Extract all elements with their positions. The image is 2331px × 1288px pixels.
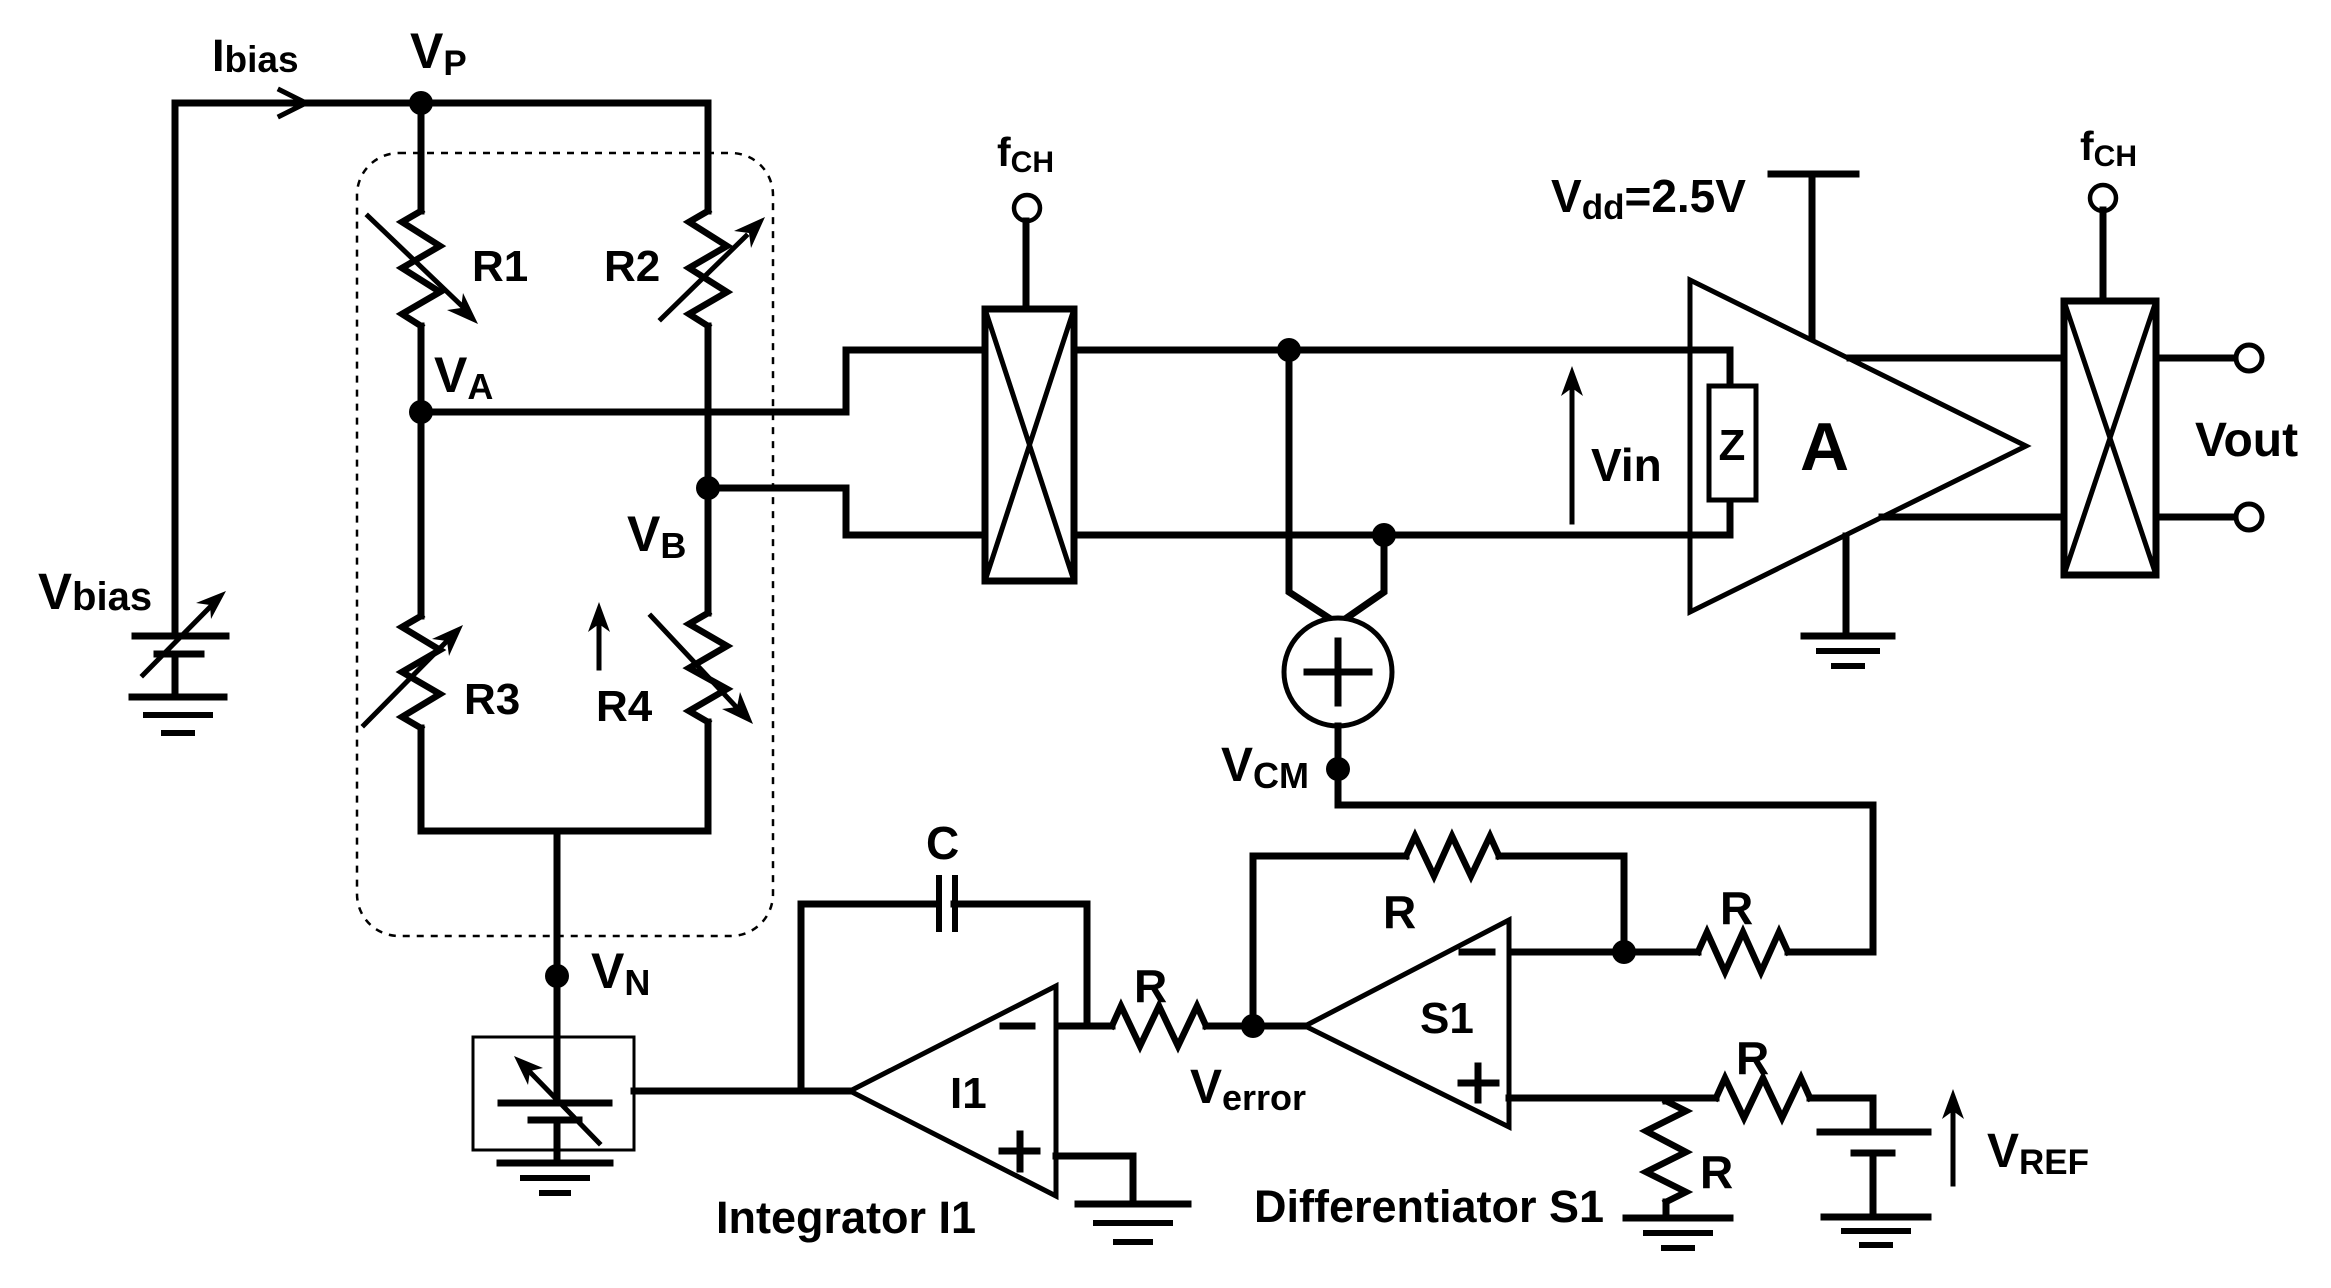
chopper CH1 (input modulator) — [985, 309, 1074, 581]
label VCM — [1221, 739, 1309, 796]
wire feedback up from junction — [1499, 856, 1624, 952]
wire VB to input chopper (lower) — [708, 488, 985, 535]
arrow VREF — [1942, 1089, 1964, 1184]
summing node (+) common-mode sense — [1284, 618, 1392, 726]
label R (S1 feedback) — [1383, 886, 1416, 938]
wire lower amp input through Z — [1074, 500, 1730, 535]
trim source box (controlled variable source) — [473, 1037, 634, 1150]
resistor R3 (variable) — [364, 616, 463, 728]
wire Vbias vertical — [172, 103, 179, 636]
node VB — [696, 476, 720, 500]
svg-text:R4: R4 — [596, 682, 653, 731]
wire chopper1 lower output to amp — [1074, 532, 1730, 539]
label R1 — [472, 242, 528, 291]
arrow Vin — [1561, 366, 1583, 522]
wire R1 to VA to R3 — [418, 326, 425, 616]
ground (VREF) — [1824, 1214, 1928, 1221]
node upper tap — [1277, 338, 1301, 362]
svg-text:Z: Z — [1719, 421, 1746, 470]
wire upper amp input through Z — [1074, 350, 1730, 386]
wire VCM to differentiator input R — [1338, 769, 1873, 952]
label Integrator I1 — [716, 1192, 976, 1243]
svg-text:C: C — [926, 817, 959, 869]
wire VP down to R1 — [418, 103, 425, 211]
svg-text:S1: S1 — [1420, 994, 1474, 1043]
node VP — [409, 91, 433, 115]
wire S1 plus input — [1509, 1095, 1716, 1102]
wire amp to ground — [1843, 536, 1850, 636]
wire R3 to bridge bottom — [418, 728, 425, 831]
node VA — [409, 400, 433, 424]
label Vout — [2195, 414, 2298, 467]
resistor R2 (variable) — [661, 211, 765, 326]
wire amp lower output — [1882, 514, 2064, 521]
wire amp upper output — [1850, 355, 2064, 362]
label R (integrator input) — [1134, 960, 1167, 1012]
resistor R (divider to ground) — [1646, 1098, 1686, 1218]
wire bridge bottom — [421, 828, 708, 835]
label Vbias — [38, 563, 152, 620]
ground (Vbias) — [132, 654, 224, 733]
wire fCH to chopper2 — [2100, 210, 2107, 301]
label Verror — [1190, 1061, 1306, 1118]
label fCH (input chopper) — [997, 129, 1054, 179]
impedance Z — [1709, 386, 1756, 500]
resistor R (VCM input to S1) — [1624, 932, 1873, 972]
source VREF (battery) — [1820, 1132, 1928, 1217]
op-amp S1 (differentiator) — [1305, 920, 1509, 1127]
wire junction to S1 minus input — [1509, 949, 1624, 956]
svg-text:R: R — [1383, 886, 1416, 938]
svg-text:A: A — [1800, 409, 1849, 485]
chopper CH2 (output demodulator) — [2064, 301, 2156, 575]
ground (trim source) — [500, 1160, 610, 1167]
node S1 inverting input junction — [1612, 940, 1636, 964]
label Ibias — [212, 30, 299, 81]
terminal Vout+ — [2236, 345, 2262, 371]
wire feedback to Verror — [1253, 856, 1406, 1026]
svg-text:R2: R2 — [604, 242, 660, 291]
svg-text:Vdd=2.5V: Vdd=2.5V — [1551, 170, 1746, 227]
svg-text:R3: R3 — [464, 675, 520, 724]
terminal fCH (input chopper) — [1014, 195, 1040, 221]
ground (I1) — [1078, 1201, 1188, 1208]
wire R4 to bridge bottom — [705, 722, 712, 831]
node Verror — [1241, 1014, 1265, 1038]
wire S1 output to Verror — [1253, 1023, 1305, 1030]
wire upper tap down to summer — [1289, 350, 1352, 633]
label VREF — [1987, 1125, 2089, 1182]
resistor R (Verror to I1) — [1056, 1006, 1253, 1046]
svg-text:R: R — [1700, 1146, 1733, 1198]
label VP — [410, 23, 467, 83]
terminal Vout- — [2236, 504, 2262, 530]
label Vin — [1591, 439, 1662, 491]
label R (VREF series) — [1736, 1032, 1769, 1084]
op-amp I1 (integrator) — [850, 986, 1056, 1196]
svg-text:R: R — [1720, 882, 1753, 934]
label Differentiator S1 — [1254, 1181, 1604, 1232]
ground (amplifier) — [1804, 633, 1892, 640]
wire C feedback riser — [954, 904, 1087, 1026]
resistor R1 (variable) — [368, 211, 478, 326]
label R3 — [464, 675, 520, 724]
node VCM — [1326, 757, 1350, 781]
source trim battery (variable) — [501, 1056, 609, 1143]
capacitor C — [939, 878, 955, 929]
ground (divider R) — [1626, 1215, 1730, 1222]
svg-text:I1: I1 — [950, 1069, 987, 1118]
svg-text:Integrator I1: Integrator I1 — [716, 1192, 976, 1243]
wire chopper1 upper output to amp — [1074, 347, 1730, 354]
label VA — [434, 347, 493, 407]
wire bridge mid-node down to VN and source box — [554, 831, 561, 1103]
wire Ibias top with current arrow — [175, 90, 421, 116]
svg-text:Vin: Vin — [1591, 439, 1662, 491]
label fCH (output chopper) — [2080, 123, 2137, 173]
wire fCH to chopper1 — [1023, 221, 1030, 309]
wire lower output terminal — [2156, 514, 2236, 521]
label R (VCM input) — [1720, 882, 1753, 934]
node lower tap — [1372, 523, 1396, 547]
svg-text:R1: R1 — [472, 242, 528, 291]
wire C to I1 output — [801, 904, 938, 1091]
svg-text:R: R — [1736, 1032, 1769, 1084]
label VB — [627, 506, 686, 566]
bridge dashed outline — [357, 153, 773, 936]
wire R2 to VB to R4 — [705, 326, 712, 613]
svg-text:Differentiator S1: Differentiator S1 — [1254, 1181, 1604, 1232]
wire bridge right branch top — [705, 103, 712, 211]
node VN — [545, 964, 569, 988]
resistor R (VREF divider series) — [1716, 1078, 1873, 1132]
label Vdd=2.5V — [1551, 170, 1746, 227]
svg-text:R: R — [1134, 960, 1167, 1012]
source Vbias (variable battery) — [135, 591, 226, 675]
wire I1 plus input to ground — [1056, 1156, 1133, 1204]
svg-text:Vout: Vout — [2195, 414, 2298, 467]
wire VP to bridge right branch — [421, 100, 708, 107]
wire upper output terminal — [2156, 355, 2236, 362]
label C — [926, 817, 959, 869]
label A — [1800, 409, 1849, 485]
label R2 — [604, 242, 660, 291]
terminal fCH (output chopper) — [2090, 185, 2116, 211]
op-amp A (main amplifier) — [1690, 280, 2026, 612]
wire lower tap down to summer — [1325, 535, 1384, 633]
wire VA to input chopper (upper) — [421, 350, 985, 412]
resistor R4 (variable) — [588, 602, 753, 724]
resistor R (S1 feedback) — [1406, 836, 1499, 876]
wire trim battery to ground — [554, 1120, 561, 1163]
label VN — [591, 943, 650, 1003]
label R (divider) — [1700, 1146, 1733, 1198]
wire I1 output to trim source box — [634, 1088, 850, 1095]
label R4 — [596, 682, 653, 731]
supply Vdd rail — [1771, 174, 1856, 338]
wire summer to VCM — [1335, 726, 1342, 769]
